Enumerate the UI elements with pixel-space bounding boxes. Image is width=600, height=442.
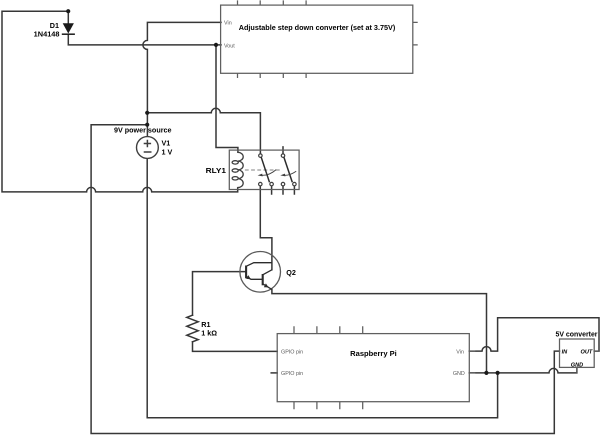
svg-text:V1: V1 (162, 138, 171, 147)
svg-text:Adjustable step down converter: Adjustable step down converter (set at 3… (239, 23, 396, 32)
svg-text:GPIO pin: GPIO pin (281, 350, 303, 356)
svg-text:GND: GND (571, 363, 583, 369)
svg-text:5V converter: 5V converter (556, 329, 598, 338)
svg-text:Q2: Q2 (286, 268, 296, 277)
svg-text:RLY1: RLY1 (206, 166, 226, 175)
svg-text:IN: IN (562, 349, 569, 355)
svg-text:1N4148: 1N4148 (34, 30, 60, 39)
svg-text:Vin: Vin (224, 21, 232, 27)
svg-text:OUT: OUT (580, 349, 592, 355)
svg-text:9V power source: 9V power source (114, 126, 172, 135)
svg-text:1 kΩ: 1 kΩ (201, 329, 217, 338)
svg-text:GND: GND (453, 371, 465, 377)
svg-text:GPIO pin: GPIO pin (281, 371, 303, 377)
svg-text:Raspberry Pi: Raspberry Pi (350, 349, 397, 358)
svg-text:Vout: Vout (224, 43, 235, 49)
svg-text:Vin: Vin (456, 350, 464, 356)
svg-text:1 V: 1 V (162, 147, 173, 156)
